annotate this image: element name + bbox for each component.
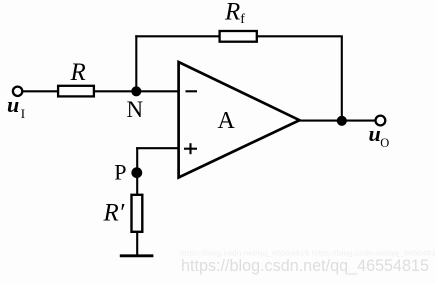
op-amp plus sign (non-inverting input) [184, 143, 197, 154]
node N junction dot [131, 86, 141, 96]
svg-text:A: A [218, 108, 236, 134]
resistor Rf [220, 31, 257, 42]
svg-text:R′: R′ [103, 200, 125, 227]
svg-text:P: P [114, 160, 126, 185]
resistor R' [132, 195, 143, 232]
svg-text:N: N [127, 97, 144, 122]
wire feedback right vertical down to output node [341, 36, 343, 121]
output node junction dot [337, 116, 347, 126]
svg-text:https://blog.csdn.net/qq_46554: https://blog.csdn.net/qq_46554815 [181, 256, 429, 275]
svg-text:u: u [7, 92, 19, 117]
svg-text:I: I [21, 106, 25, 121]
output terminal u_O circle [376, 116, 386, 126]
resistor R [58, 86, 94, 97]
op-amp A triangle [179, 62, 300, 178]
svg-text:R: R [70, 59, 86, 86]
wire vertical through node P to resistor R' [136, 147, 138, 194]
node P junction dot [131, 167, 142, 178]
wire feedback top left segment [135, 35, 218, 37]
svg-text:Rf: Rf [224, 0, 245, 27]
wire non-inverting input to node P branch [136, 147, 178, 149]
wire node N up to feedback branch [135, 35, 137, 91]
svg-text:u: u [369, 121, 381, 146]
op-amp minus sign (inverting input) [186, 90, 198, 92]
wire resistor R' to ground [136, 232, 138, 256]
wire feedback top right segment [257, 35, 343, 37]
ground bar [120, 254, 154, 257]
svg-text:O: O [380, 136, 389, 150]
wire input terminal to resistor R [23, 90, 57, 92]
input terminal u_I circle [13, 87, 22, 96]
wire resistor R to op-amp inverting input, through node N [95, 90, 179, 92]
wire op-amp output to terminal [300, 120, 375, 122]
